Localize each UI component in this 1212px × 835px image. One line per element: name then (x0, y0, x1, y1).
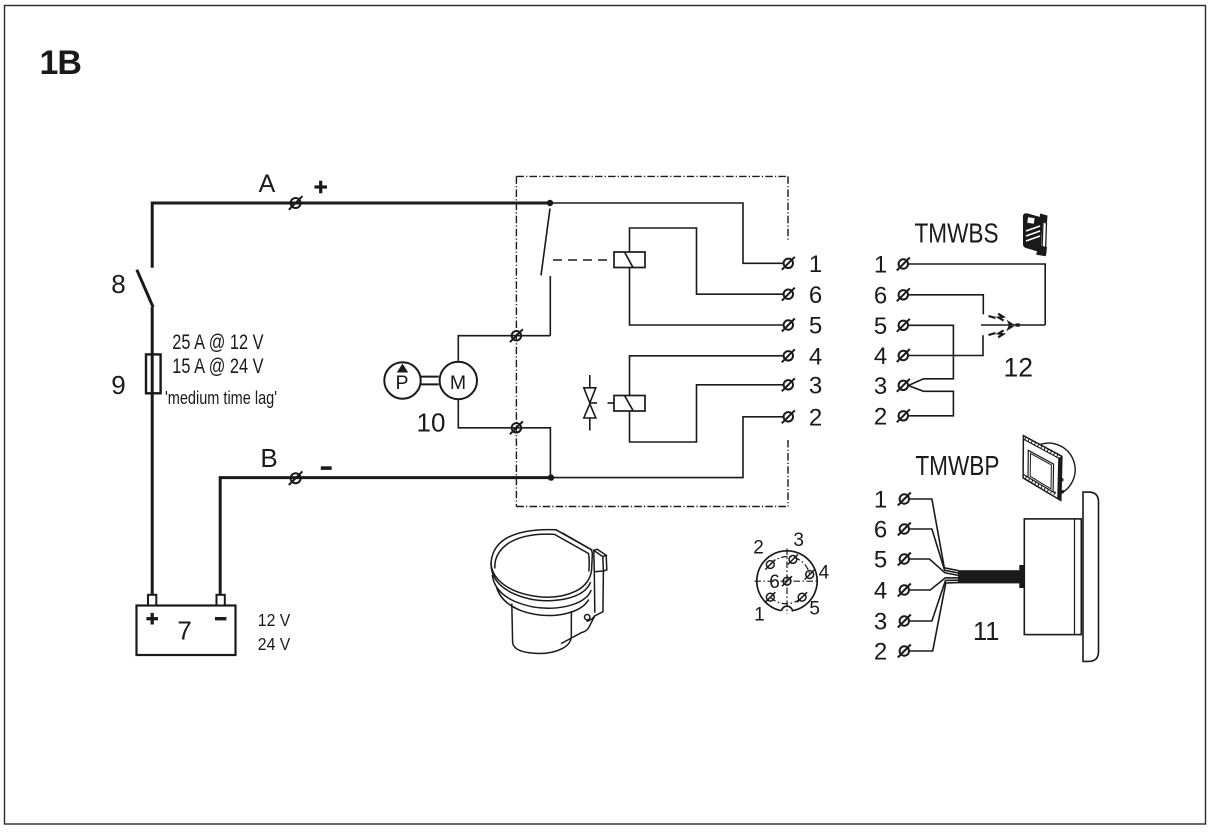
pump-motor unit 10 (384, 362, 477, 399)
seat band 2 (492, 575, 591, 608)
panel flange (1083, 492, 1099, 661)
wire battery+ to fuse to switch 8 to node A corner (151, 307, 154, 595)
wire B thin to pin2 (551, 417, 784, 478)
TMWBS pin 6 connector (897, 288, 910, 301)
control-box pin 2 connector (782, 410, 795, 423)
wire TMWBP pin 3 into cable (909, 580, 959, 621)
TMWBP pin 1 connector (898, 493, 911, 506)
bracket tab front (594, 551, 604, 572)
junction node A (547, 200, 553, 206)
wire switch top to corner A (152, 203, 550, 268)
svg-text:2: 2 (874, 403, 887, 430)
control box dash-dot border (516, 176, 788, 506)
svg-text:5: 5 (809, 313, 822, 340)
svg-text:2: 2 (809, 404, 822, 431)
control-box pin 4 connector (782, 349, 795, 362)
svg-text:12: 12 (1004, 353, 1033, 383)
base cylinder (512, 604, 572, 654)
TMWBS pin 1 connector (897, 258, 910, 271)
svg-text:'medium time lag': 'medium time lag' (165, 388, 277, 408)
pump direction arrow (397, 364, 408, 373)
svg-text:P: P (395, 372, 408, 394)
TMWBP pin 3 connector (898, 615, 911, 628)
wire relay K1 bottom to pin 5 (630, 268, 784, 326)
battery minus mark (215, 617, 227, 620)
svg-text:1: 1 (809, 251, 822, 278)
dashed actuator line to relay K2 (608, 402, 614, 404)
TMWBS pin 4 connector (897, 349, 910, 362)
svg-text:M: M (450, 372, 466, 394)
seat band 3 (497, 587, 589, 616)
svg-text:11: 11 (973, 618, 999, 646)
svg-text:3: 3 (874, 373, 887, 400)
svg-text:3: 3 (874, 609, 887, 636)
svg-text:A: A (259, 170, 276, 198)
relay K1 (614, 252, 645, 268)
svg-text:TMWBP: TMWBP (915, 450, 999, 481)
svg-text:4: 4 (874, 343, 887, 370)
wire jumper TMWBS pin 2 to pin 3 (908, 386, 953, 416)
svg-text:6: 6 (874, 282, 887, 309)
wire switch common (981, 324, 1045, 326)
connector symbol on wire A (289, 196, 303, 210)
wire relay K1 top to pin 6 (630, 228, 784, 294)
svg-text:5: 5 (874, 547, 887, 574)
round connector pin labels (753, 530, 829, 626)
TMWBS rocker switch icon (1023, 213, 1048, 255)
TMWBP pin 6 connector (898, 523, 911, 536)
TMWBS pin 2 connector (897, 409, 910, 422)
svg-text:1B: 1B (40, 44, 82, 82)
svg-text:6: 6 (874, 517, 887, 544)
valve / thermal symbol (584, 375, 597, 431)
svg-text:7: 7 (177, 615, 191, 645)
wire motor bottom to node B via lower connector (458, 400, 550, 478)
svg-text:1: 1 (754, 605, 765, 626)
svg-text:25 A @ 12 V: 25 A @ 12 V (172, 331, 263, 354)
minus sign at B (321, 466, 332, 470)
bracket body (561, 571, 603, 644)
svg-text:1: 1 (874, 252, 887, 279)
svg-text:9: 9 (111, 370, 125, 400)
wire TMWBS pin 1 to switch output (908, 264, 1045, 325)
svg-text:8: 8 (111, 269, 125, 299)
wire battery- to node B corner to control box (220, 478, 551, 595)
battery plus mark (146, 613, 158, 625)
svg-text:5: 5 (874, 313, 887, 340)
wire TMWBP pin 2 into cable (909, 583, 959, 651)
wire TMWBP pin 4 into cable (909, 578, 959, 590)
TMWBS pin 5 connector (897, 319, 910, 332)
fuse 9 (146, 354, 161, 393)
dashed impulse arrows (989, 314, 1004, 338)
battery terminal + (148, 595, 156, 606)
seat band 1 (491, 563, 591, 601)
lid outer (491, 530, 592, 598)
svg-text:10: 10 (417, 408, 446, 438)
TMWBP panel icon (1023, 436, 1075, 501)
round 6-pin connector (755, 549, 820, 615)
lid hinge thickness line (562, 533, 592, 550)
svg-text:4: 4 (874, 578, 887, 605)
relay K2 (614, 396, 645, 412)
svg-text:3: 3 (793, 530, 804, 551)
wire TMWBS pin 6 to momentary contact up (908, 295, 983, 315)
junction node B (548, 474, 554, 480)
control-box pin 6 connector (782, 288, 795, 301)
control-box pin 5 connector (782, 319, 795, 332)
panel body (1024, 519, 1081, 635)
battery terminal - (217, 595, 225, 606)
control-box pin 3 connector (782, 378, 795, 391)
svg-text:4: 4 (819, 563, 830, 584)
cable connector block (1019, 565, 1024, 588)
battery 7 (137, 606, 236, 656)
svg-text:2: 2 (753, 538, 764, 559)
svg-text:6: 6 (809, 282, 822, 309)
TMWBP pin 5 connector (898, 553, 911, 566)
dashed actuator line to relay K1 (553, 259, 612, 261)
wire relay K2 bottom to pin 3 (630, 385, 784, 442)
wire TMWBS pin 4 to momentary contact down (908, 335, 983, 355)
wire switch contact lower terminal (549, 276, 551, 336)
wire motor top to switch via upper connector (458, 336, 550, 361)
svg-text:12 V: 12 V (258, 610, 291, 630)
relay switch contact blade inside box (541, 209, 550, 276)
control-box pin 1 connector (782, 257, 795, 270)
svg-text:5: 5 (809, 599, 820, 620)
lid inner contour (495, 534, 589, 571)
bracket tab side (594, 549, 607, 571)
svg-text:3: 3 (809, 372, 822, 399)
wire jumper TMWBS pin 5 to pin 3 (908, 325, 953, 385)
svg-text:15 A @ 24 V: 15 A @ 24 V (172, 355, 263, 378)
TMWBS pin 3 connector (897, 379, 910, 392)
connector on box edge lower (510, 421, 523, 434)
TMWBP pin 2 connector (898, 645, 911, 658)
svg-text:2: 2 (874, 639, 887, 666)
wire A thin to pin1 (550, 203, 784, 263)
svg-text:1: 1 (874, 487, 887, 514)
wire TMWBP pin 5 into cable (909, 559, 959, 575)
connector on box edge upper (510, 329, 523, 342)
svg-text:4: 4 (809, 343, 822, 370)
TMWBP pin 4 connector (898, 584, 911, 597)
svg-text:TMWBS: TMWBS (915, 218, 999, 249)
wire TMWBP pin 6 into cable (909, 529, 959, 573)
wire TMWBP pin 1 into cable (909, 499, 959, 571)
connector symbol on wire B (289, 471, 303, 485)
wire relay K2 top to pin 4 (630, 356, 784, 396)
toilet drawing (491, 530, 607, 654)
svg-text:24 V: 24 V (258, 634, 291, 654)
svg-text:B: B (260, 443, 277, 473)
cable to panel (958, 570, 1020, 583)
plus sign at A (315, 181, 328, 194)
bracket screw (585, 615, 590, 620)
switch 8 blade (137, 270, 153, 307)
svg-text:6: 6 (769, 572, 780, 593)
